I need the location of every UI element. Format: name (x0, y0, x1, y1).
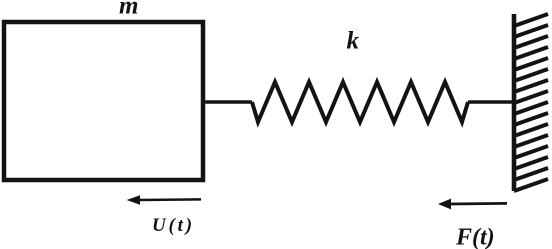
svg-text:U(t): U(t) (152, 215, 195, 236)
svg-text:k: k (347, 28, 360, 55)
wall vertical line (512, 14, 517, 191)
wire: lead from spring to wall (468, 100, 514, 104)
arrow F(t) (438, 199, 507, 210)
mass block m (4, 22, 203, 180)
svg-text:m: m (119, 0, 138, 20)
wire: lead from mass to spring (205, 100, 252, 104)
arrow U(t) (127, 195, 202, 205)
wall hatching (514, 14, 548, 191)
svg-text:F(t): F(t) (455, 225, 495, 249)
spring k (252, 82, 468, 122)
